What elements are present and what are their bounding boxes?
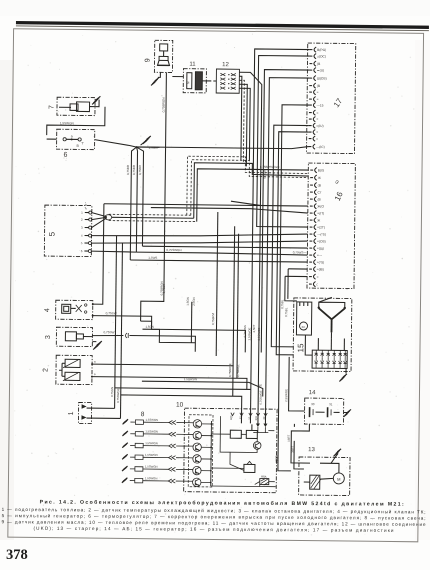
generator 15 regulator box with B+ xyxy=(296,302,311,335)
svg-text:1,5SWGN: 1,5SWGN xyxy=(145,476,158,480)
svg-text:12: 12 xyxy=(222,62,229,68)
svg-text:—15: —15 xyxy=(317,103,324,107)
generator 15 stator star winding xyxy=(317,297,346,338)
component 12 shielded output nest xyxy=(235,72,261,423)
verticals to pins 226/233 xyxy=(233,226,239,378)
long wire bus y=205 to connector 16 xyxy=(104,200,308,206)
connector 16 pins xyxy=(309,167,327,286)
generator 15 rectifier block xyxy=(305,335,347,368)
svg-text:0,75BR: 0,75BR xyxy=(132,164,136,175)
svg-text:0,75SWGE: 0,75SWGE xyxy=(116,388,120,403)
svg-text:В(PG): В(PG) xyxy=(317,48,326,52)
svg-text:0,75BR: 0,75BR xyxy=(138,164,142,175)
svg-text:=(IТ): =(IТ) xyxy=(317,211,324,215)
svg-text:6: 6 xyxy=(63,152,67,159)
svg-text:11: 11 xyxy=(189,62,196,68)
svg-text:13: 13 xyxy=(308,447,315,453)
ground arrow above starter 13 xyxy=(331,449,341,464)
svg-text:16RT: 16RT xyxy=(287,435,291,442)
vertical wire labels cluster above generator xyxy=(161,284,261,341)
svg-text:Ст: Ст xyxy=(318,190,322,194)
wire from 7 down to 6 label 1,5SWGN xyxy=(47,106,105,140)
ground near component 7 xyxy=(92,96,100,107)
svg-text:2,5GN: 2,5GN xyxy=(192,297,196,305)
component 7 cold-start injection corrector xyxy=(48,97,95,116)
component 13 starter motor xyxy=(299,447,351,496)
svg-text:2,5SWOE: 2,5SWOE xyxy=(257,328,261,341)
svg-text:9: 9 xyxy=(145,58,152,62)
wire 0,75BL drops to generator xyxy=(280,269,297,317)
stepped wires center-left xyxy=(140,321,195,343)
svg-text:1,5SWGN: 1,5SWGN xyxy=(145,429,158,433)
wire 1,5BRSW to starter circuit xyxy=(142,377,263,405)
svg-text:=(Iд): =(Iд) xyxy=(317,246,324,250)
svg-text:Ш(ОS): Ш(ОS) xyxy=(317,76,327,80)
svg-text:10: 10 xyxy=(176,402,184,409)
svg-text:=: = xyxy=(316,130,318,134)
svg-text:=(*S): =(*S) xyxy=(317,260,325,264)
ground below component 9 xyxy=(151,72,160,85)
svg-text:1,5SWGN: 1,5SWGN xyxy=(60,121,74,125)
component 3 engine stop valve xyxy=(45,327,93,347)
svg-text:30: 30 xyxy=(311,402,315,406)
caption line 2 xyxy=(2,512,426,521)
page number 378 xyxy=(6,547,28,563)
relay unit 10 output transistors xyxy=(184,419,213,486)
relay unit 10 right bus wire xyxy=(268,431,279,471)
long wire row y=151 to pin 17 xyxy=(135,145,308,248)
wire component 4 top terminal up to long bus xyxy=(92,204,104,306)
component 1 fuel preheater xyxy=(68,402,92,423)
component 5 pin wires to connector 16 xyxy=(91,232,307,254)
connector 17 pins xyxy=(309,47,328,149)
svg-text:1,5GN: 1,5GN xyxy=(186,297,190,305)
relay unit 10 inner transistor partition xyxy=(188,415,213,487)
svg-text:(В: (В xyxy=(317,197,320,201)
wire bundle verticals from connectors 12/17 xyxy=(148,48,310,460)
caption line 4 xyxy=(33,526,393,533)
svg-text:1,5SWGN: 1,5SWGN xyxy=(145,441,158,445)
wire 2,5SWGE from generator to battery xyxy=(284,357,305,411)
svg-text:0,75BRGN: 0,75BRGN xyxy=(161,97,165,112)
svg-text:5: 5 xyxy=(48,231,57,236)
svg-text:=(ОS): =(ОS) xyxy=(317,239,326,243)
svg-text:4: 4 xyxy=(44,308,51,312)
svg-text:3: 3 xyxy=(45,335,52,339)
svg-text:М: М xyxy=(337,477,340,482)
svg-text:Ж(О: Ж(О xyxy=(317,204,324,208)
top rule bar xyxy=(16,23,429,31)
wires component 2 to heater relay xyxy=(91,360,247,390)
svg-text:В(IS: В(IS xyxy=(318,168,325,172)
svg-text:2,5RT: 2,5RT xyxy=(252,324,256,332)
svg-text:0,75BR: 0,75BR xyxy=(263,169,267,179)
svg-text:0,75SWS: 0,75SWS xyxy=(243,325,247,337)
svg-text:—(IС): —(IС) xyxy=(316,145,325,149)
svg-text:0,75WS—: 0,75WS— xyxy=(293,250,307,254)
glow plug row xyxy=(122,441,184,449)
svg-text:Ж: Ж xyxy=(317,218,320,222)
component 6 thermoregulator xyxy=(56,129,94,159)
svg-text:=—: =— xyxy=(317,253,323,257)
wires component 1 to glow relay box xyxy=(86,235,252,423)
svg-text:R8A: R8A xyxy=(261,475,267,479)
ground at component 3 xyxy=(92,341,102,350)
svg-text:=: = xyxy=(316,137,318,141)
ground at battery 14 xyxy=(343,409,351,417)
svg-text:В+: В+ xyxy=(302,325,306,329)
wire 0,75BRGN from component 9 down to connector 16 xyxy=(141,72,167,321)
svg-text:≠⁰ ∅⁺: ≠⁰ ∅⁺ xyxy=(84,202,88,210)
glow plug row xyxy=(122,476,184,484)
svg-text:1,5BRSW: 1,5BRSW xyxy=(184,377,197,381)
label 0,75BR on bundle xyxy=(263,169,267,179)
svg-text:2,5SWOE: 2,5SWOE xyxy=(247,327,251,340)
svg-text:31: 31 xyxy=(329,402,333,406)
component 14 battery xyxy=(304,390,343,424)
svg-text:1,5SWGN: 1,5SWGN xyxy=(145,453,158,457)
svg-text:(В: (В xyxy=(317,62,320,66)
relay unit 10 internal components xyxy=(211,424,276,485)
svg-text:1,5SWGN: 1,5SWGN xyxy=(145,465,158,469)
wire component 3 0,75SW with inline connector xyxy=(92,330,195,352)
component 8 glow plugs label xyxy=(141,411,145,418)
svg-text:—(*S): —(*S) xyxy=(317,232,326,236)
svg-text:=(IВ): =(IВ) xyxy=(317,267,324,271)
wire 0,75BRVI vertical xyxy=(216,212,218,356)
relay unit 10 feed diodes xyxy=(253,423,268,432)
relay unit 10 top terminal labels xyxy=(229,415,266,420)
svg-text:=: = xyxy=(317,97,319,101)
shielded cable run to connector (dashed shield) xyxy=(109,155,309,223)
svg-text:0,75SWGE: 0,75SWGE xyxy=(259,390,263,404)
svg-text:15: 15 xyxy=(296,343,305,353)
svg-text:378: 378 xyxy=(6,547,28,563)
caption title xyxy=(40,498,404,507)
svg-text:8: 8 xyxy=(141,411,145,418)
svg-text:7: 7 xyxy=(48,105,55,109)
wires 16RT 35RT from battery to starter xyxy=(286,424,310,469)
svg-text:0,75SWGN: 0,75SWGN xyxy=(166,248,181,252)
component 12 connector block xyxy=(216,62,239,93)
svg-text:Н(С: Н(С xyxy=(229,415,233,420)
glow plug row xyxy=(122,464,184,472)
svg-text:1,5SWGN: 1,5SWGN xyxy=(145,418,158,422)
component 10 glow plug relay unit box xyxy=(175,402,277,493)
relay unit 10 feed arrowheads xyxy=(231,413,267,416)
svg-text:2: 2 xyxy=(43,368,50,372)
glow plug row xyxy=(122,429,184,437)
svg-text:1,5GN: 1,5GN xyxy=(145,325,153,329)
glow plug row xyxy=(122,453,184,461)
svg-text:0,75BR: 0,75BR xyxy=(126,164,130,175)
svg-text:≖(U): ≖(U) xyxy=(317,68,324,72)
svg-text:0,75BRGE: 0,75BRGE xyxy=(228,363,232,377)
svg-text:1: 1 xyxy=(68,411,75,415)
label LO inside connector 16 xyxy=(334,179,341,186)
svg-text:(В: (В xyxy=(318,183,321,187)
component 5 impulse generator xyxy=(44,205,92,257)
wire component 4 bottom 0,75SW xyxy=(91,311,245,352)
component 11 engine speed sensor xyxy=(172,62,216,93)
component 15 generator/alternator xyxy=(293,298,352,372)
svg-text:=: = xyxy=(317,90,319,94)
svg-text:0,75SW: 0,75SW xyxy=(103,330,114,334)
svg-text:=: = xyxy=(317,275,319,279)
component 2 coolant temperature sensors xyxy=(42,355,92,385)
wire component 6 to junction with three 0,75BR drops xyxy=(93,140,159,261)
svg-text:0,75BL: 0,75BL xyxy=(280,299,284,309)
ground below generator 15 xyxy=(339,368,347,381)
caption line 3 xyxy=(2,519,426,527)
wire 30RT glow relay to starter xyxy=(274,455,291,470)
svg-text:±(ОС): ±(ОС) xyxy=(317,54,326,58)
svg-text:1,5WS: 1,5WS xyxy=(148,256,157,260)
svg-text:0,75SW: 0,75SW xyxy=(106,311,117,315)
svg-text:Ƭ: Ƭ xyxy=(82,141,84,145)
svg-text:0,75BRVI: 0,75BRVI xyxy=(211,312,215,325)
component 5 terminal pins xyxy=(81,202,92,254)
svg-text:0,75BL: 0,75BL xyxy=(284,307,288,317)
svg-text:(В: (В xyxy=(317,84,320,88)
svg-text:З(Н: З(Н xyxy=(254,416,258,421)
svg-text:=(IU): =(IU) xyxy=(316,124,323,128)
connector block 16 engine harness connector xyxy=(307,163,355,289)
svg-text:35RT: 35RT xyxy=(291,446,295,453)
svg-text:14: 14 xyxy=(309,390,316,396)
svg-text:2,5SWGE: 2,5SWGE xyxy=(284,389,288,402)
component 4 boost pressure control valve xyxy=(44,300,93,320)
starter 13 internals xyxy=(304,463,345,489)
shielded cable fan from component 5 xyxy=(92,213,112,228)
ground arrow at junction near 6 xyxy=(141,136,151,145)
component 9 oil pressure sensor xyxy=(144,40,172,72)
svg-text:=(2Т): =(2Т) xyxy=(317,225,325,229)
svg-text:=: = xyxy=(316,117,318,121)
svg-text:Ж: Ж xyxy=(318,176,321,180)
svg-text:0,75BRGN: 0,75BRGN xyxy=(160,281,164,295)
svg-text:=: = xyxy=(316,111,318,115)
wires into connector 16 middle pins xyxy=(130,248,307,277)
svg-text:-10RT: -10RT xyxy=(275,455,279,463)
component 12 contact chevrons xyxy=(220,73,236,89)
wire 1,5GN 2,5GN verticals xyxy=(159,281,192,342)
relay unit internal wires xyxy=(211,416,277,487)
glow plug row xyxy=(123,417,185,425)
caption line 1 xyxy=(2,506,426,515)
svg-text:a: a xyxy=(71,134,73,138)
connector block 17 diagnostics socket xyxy=(307,43,356,154)
svg-text:0,75GN: 0,75GN xyxy=(110,387,114,397)
svg-text:50: 50 xyxy=(259,384,263,388)
